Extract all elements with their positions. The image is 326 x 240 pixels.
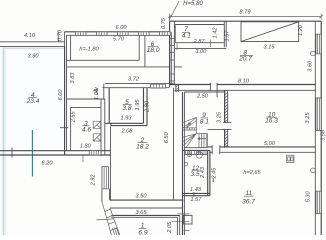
svg-text:3.00: 3.00 — [195, 49, 207, 55]
svg-text:6.20: 6.20 — [42, 160, 54, 166]
svg-text:3.65: 3.65 — [136, 210, 148, 216]
svg-text:1.95: 1.95 — [135, 99, 141, 111]
svg-text:h=2,65: h=2,65 — [243, 170, 261, 176]
svg-text:3.15: 3.15 — [264, 45, 276, 51]
svg-text:23.4: 23.4 — [26, 98, 40, 105]
svg-text:h=-1,80: h=-1,80 — [79, 47, 99, 53]
svg-text:3.50: 3.50 — [136, 194, 148, 200]
svg-text:3.8: 3.8 — [122, 105, 131, 112]
svg-text:3.5: 3.5 — [190, 171, 199, 178]
svg-text:18.0: 18.0 — [147, 47, 160, 54]
svg-text:2.87: 2.87 — [193, 39, 206, 45]
svg-text:H=5,80: H=5,80 — [183, 0, 203, 7]
svg-text:2.55: 2.55 — [70, 110, 76, 123]
svg-text:3.72: 3.72 — [128, 76, 140, 82]
svg-text:1.42: 1.42 — [213, 27, 219, 39]
svg-text:2.05: 2.05 — [167, 221, 173, 234]
svg-text:4.6: 4.6 — [82, 127, 91, 134]
svg-text:3.58: 3.58 — [321, 129, 326, 141]
svg-text:2.92: 2.92 — [90, 174, 96, 187]
svg-text:2.08: 2.08 — [121, 129, 134, 135]
svg-text:3.25: 3.25 — [305, 112, 311, 124]
svg-text:1.43: 1.43 — [190, 187, 202, 193]
svg-text:20.7: 20.7 — [238, 56, 252, 63]
svg-text:8.79: 8.79 — [240, 10, 251, 16]
svg-text:6.00: 6.00 — [116, 25, 128, 31]
svg-text:6.50: 6.50 — [164, 131, 170, 143]
svg-text:3.25: 3.25 — [217, 111, 223, 123]
svg-text:4.1: 4.1 — [182, 32, 191, 39]
svg-text:1.57: 1.57 — [190, 197, 202, 203]
svg-text:1.20: 1.20 — [298, 24, 304, 36]
svg-text:3.83: 3.83 — [70, 72, 76, 84]
svg-text:5.00: 5.00 — [264, 141, 276, 147]
svg-text:5.70: 5.70 — [113, 37, 125, 43]
svg-text:1.80: 1.80 — [80, 144, 92, 150]
svg-text:3.90: 3.90 — [28, 54, 40, 60]
svg-text:6.00: 6.00 — [58, 89, 64, 101]
svg-text:6.9: 6.9 — [138, 230, 147, 235]
svg-text:0.70: 0.70 — [57, 29, 63, 41]
svg-text:0.75: 0.75 — [161, 17, 167, 29]
svg-text:2.50: 2.50 — [196, 93, 209, 99]
svg-text:36.7: 36.7 — [242, 199, 255, 206]
svg-text:5.30: 5.30 — [306, 190, 312, 202]
svg-text:1.93: 1.93 — [121, 116, 133, 122]
svg-text:16.3: 16.3 — [265, 118, 278, 125]
svg-text:2.80: 2.80 — [145, 100, 151, 113]
svg-text:1.57: 1.57 — [224, 30, 230, 42]
svg-text:2.45: 2.45 — [211, 167, 217, 180]
svg-text:18.2: 18.2 — [136, 143, 149, 150]
svg-text:1.04: 1.04 — [94, 89, 100, 100]
svg-text:8.1: 8.1 — [200, 118, 209, 125]
svg-text:3.60: 3.60 — [307, 60, 313, 72]
svg-text:2.43: 2.43 — [200, 166, 206, 179]
svg-text:8.10: 8.10 — [238, 78, 250, 84]
svg-text:4.10: 4.10 — [24, 33, 36, 39]
